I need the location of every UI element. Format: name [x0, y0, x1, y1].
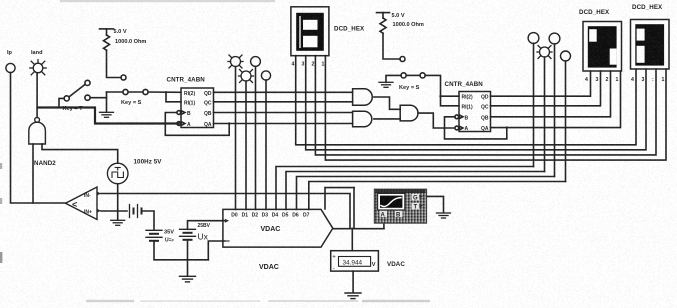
wire VCC to resistor R1: [106, 29, 108, 35]
wire counter2 QA row to display2 pin1: [491, 71, 621, 128]
VDAC plus input mark: [225, 219, 229, 223]
switch Key=S1 left terminal: [123, 89, 128, 94]
lamp Iand: [30, 60, 46, 75]
counter U1 body: [181, 88, 214, 128]
comparator input marks: [97, 192, 101, 213]
display U5 DCD_HEX body: [291, 7, 329, 56]
probe X4 on D3: [261, 71, 270, 80]
label VDAC data pins D0-D7: [231, 212, 309, 218]
wire counter1 QA to B feedback loop: [165, 113, 229, 136]
AND gate U8: [400, 105, 418, 121]
wire display U5 pin4 to bus: [296, 56, 636, 145]
wire output node to scope channel A: [383, 222, 385, 229]
switch Key=T throw lower: [85, 95, 90, 100]
power VCC 5V right bar: [377, 12, 390, 14]
wire counter1 QC row to AND1: [214, 101, 353, 103]
scan noise left edge ticks: [0, 163, 2, 169]
switch Key=T arm: [69, 85, 85, 97]
power VCC 5V left bar: [100, 28, 114, 30]
display U5 pin numbers 4 3 2 1: [292, 62, 325, 68]
wire Key=T common to rail: [59, 98, 64, 107]
switch Key=T common terminal: [64, 96, 69, 101]
wire D0 lamp to VDAC D0: [235, 67, 237, 210]
wire resistor R1 down to terminal: [107, 50, 121, 77]
wire counter1 QA row to AND2: [214, 123, 353, 125]
scan noise top strip: [60, 0, 275, 2]
display U9 body: [583, 22, 622, 72]
wire stub over VDAC corner: [325, 188, 354, 209]
wire clock bottom to ground G2: [117, 184, 119, 220]
wire branch to counter2 RI(1): [441, 96, 460, 106]
wire ground G4 to Key=S2: [386, 75, 401, 82]
battery Ux 25BV: [180, 229, 196, 240]
wire Ip to comparator output: [11, 73, 66, 203]
counter U1 clock input A bubble: [177, 122, 181, 126]
wire X5 to D4 bus row: [533, 43, 535, 166]
wire node rail to counter1 A input (thick): [38, 108, 179, 124]
wire comparator IN- to DAC output feedback: [101, 194, 350, 229]
switch Key=S2 left terminal: [401, 73, 406, 78]
battery 35V: [146, 230, 162, 241]
voltmeter M1 display: [339, 257, 371, 267]
wire battery Ux bottom to ground G3: [187, 240, 189, 276]
junction counter2 QA node: [506, 126, 508, 128]
counter U2 body: [459, 92, 491, 132]
comparator U4: [66, 187, 98, 220]
scan noise bottom strip: [86, 300, 134, 302]
wire display U5 pin2 to bus: [315, 56, 656, 155]
AND gate U7: [353, 111, 372, 127]
counter U2 pin labels: [462, 95, 489, 132]
switch Key=S2 right terminal: [420, 73, 425, 78]
wire counter1 QD row to AND1: [214, 91, 353, 93]
wire AND2 output to AND3: [374, 118, 400, 120]
wire display U5 pin3 to bus: [306, 56, 646, 150]
resistor R1 1000.0 Ohm: [104, 35, 110, 50]
counter U2 clock input A bubble: [455, 126, 459, 130]
wire AND1 output to AND3: [374, 97, 400, 109]
counter U2 clock input B bubble: [455, 115, 459, 119]
probe X6: [549, 33, 560, 44]
wire VDAC D4 bus row: [276, 167, 534, 210]
wire VDAC D5 bus row: [286, 172, 545, 210]
wire Key=T lower throw to ground node: [90, 97, 106, 99]
wire VDAC minus input to ground rail: [208, 241, 224, 260]
switch Key=S2 closed arm: [406, 74, 420, 76]
NAND2 gate U3: [29, 117, 46, 144]
clock source V2 100Hz 5V: [107, 163, 128, 184]
voltmeter M1 body: [331, 251, 379, 271]
wire counter2 QA to B feedback loop: [445, 117, 507, 139]
DAC U11 VDAC body: [223, 209, 333, 247]
junction Key=S2 feed node: [439, 95, 441, 97]
wire voltmeter to ground G6: [352, 271, 354, 293]
junction counter1 QA node: [228, 122, 230, 124]
wire counter1 QB row to AND2: [214, 112, 353, 114]
arrow scope A input: [382, 217, 387, 222]
wire Key=S1 left to ground tie: [107, 91, 123, 93]
wire D2 probe to VDAC D2: [255, 66, 257, 209]
wire counter2 QB row to display2 pin2: [491, 71, 611, 117]
wire display U5 pin1 to bus: [325, 56, 666, 160]
wire Key=S1 to counter1 RI(2): [148, 91, 181, 93]
switch Key=S1 closed arm: [128, 91, 143, 93]
wire D1 lamp to VDAC D1: [245, 81, 247, 209]
counter U1 clock input B bubble: [177, 111, 181, 115]
display U10 pin numbers 4 3 2 1: [631, 77, 665, 83]
wire X7 to D5 bus row: [544, 57, 546, 172]
battery V3: [130, 205, 142, 218]
switch Key=T throw upper: [85, 80, 90, 85]
wire VCC2 to resistor R2: [382, 13, 384, 18]
wire battery Ux top to VDAC plus input: [188, 221, 225, 230]
wire VDAC D6 bus row: [297, 177, 555, 210]
wire X8 to D7 bus row: [565, 61, 567, 182]
wire NAND2 input 1 down to comparator output node: [32, 144, 34, 203]
ground G2: [111, 220, 125, 225]
wire comparator IN+ to battery V3: [101, 210, 127, 212]
ground G5: [437, 213, 451, 218]
wire battery V3 to battery 35V: [142, 211, 155, 230]
display U10 body: [631, 20, 670, 70]
wire X6 to D6 bus row: [554, 44, 556, 177]
counter U1 pin labels: [184, 91, 212, 128]
resistor R2 1000.0 Ohm: [380, 18, 386, 33]
AND gate U6: [353, 89, 373, 106]
display U9 digit 2: [588, 26, 617, 67]
wire scope ground terminal G: [427, 196, 444, 212]
wire NAND2 input 2 to clock top: [42, 144, 118, 163]
wire D3 probe to VDAC D3: [265, 80, 267, 209]
probe X5: [528, 33, 539, 44]
lamp X2 on D1: [239, 70, 254, 83]
VDAC minus input mark: [225, 240, 229, 242]
probe Ip: [6, 63, 15, 72]
wire VDAC D7 bus row: [309, 182, 566, 210]
lamp X7: [537, 46, 552, 59]
wire branch to counter1 RI(1): [166, 92, 181, 102]
terminal circle at 5V feed 2: [400, 57, 405, 62]
wire counter2 QC row to display2 pin3: [491, 71, 601, 106]
wire VDAC output node: [333, 228, 384, 230]
display U10 digit 3: [635, 24, 664, 65]
ground G1: [100, 112, 114, 117]
wire Iand down to NAND2 output bubble: [36, 73, 38, 118]
oscilloscope XSC1: [374, 189, 426, 223]
wire Key=S2 to counter2 RI(2): [425, 75, 459, 96]
ground G6: [345, 293, 361, 299]
wire output node riser to IN- line: [353, 188, 355, 229]
ground G4: [379, 82, 393, 87]
wire ground tie vertical: [106, 92, 108, 112]
terminal circle at 5V feed: [121, 75, 126, 80]
wire resistor R2 to terminal: [383, 33, 400, 59]
wire AND3 output to counter2 A input: [418, 113, 454, 128]
wire battery 35V bottom to ground rail: [154, 241, 208, 260]
junction Key=S1 feed node: [165, 91, 167, 93]
ground G3: [180, 276, 196, 282]
wire output node to voltmeter: [351, 229, 353, 251]
switch Key=S1 right terminal: [143, 89, 148, 94]
probe X8: [561, 51, 571, 61]
display U5 digit 8: [296, 13, 324, 51]
probe X3 on D2: [251, 57, 261, 67]
junction DAC output node: [351, 228, 353, 230]
display U9 pin numbers 4 3 2 1: [585, 77, 619, 83]
wire counter2 QD row to display2 pin4: [491, 71, 591, 96]
lamp X1 on D0: [228, 55, 243, 68]
